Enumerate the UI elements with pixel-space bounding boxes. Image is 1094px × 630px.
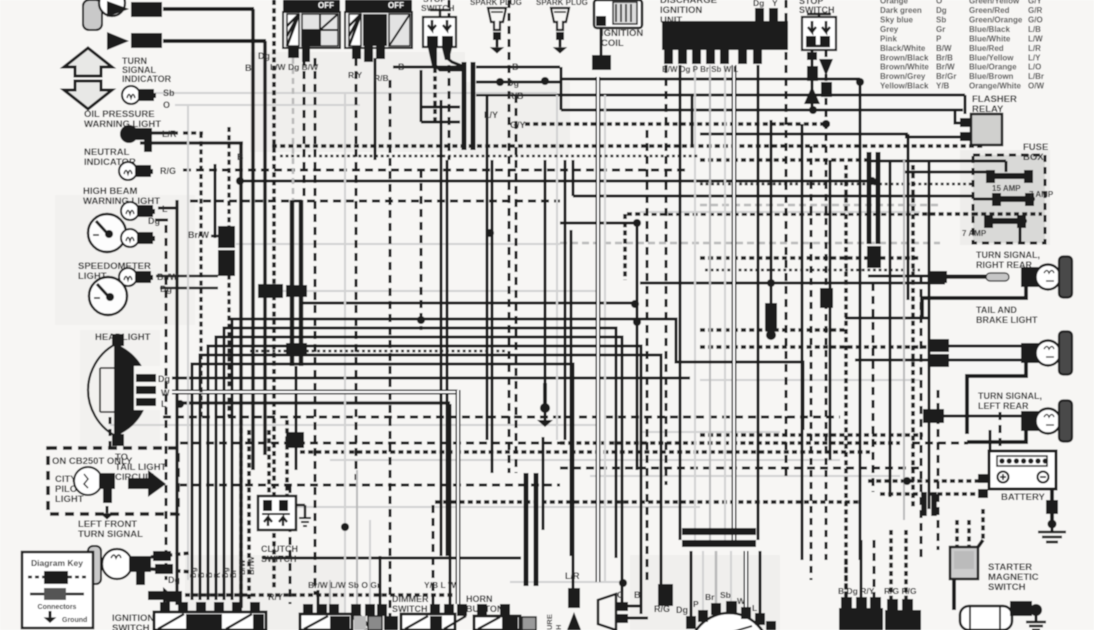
wire h63 bbox=[510, 581, 624, 583]
svg-text:Pink: Pink bbox=[880, 34, 897, 43]
wire v3 bbox=[239, 143, 243, 608]
svg-text:L: L bbox=[161, 399, 167, 409]
wire h14 bbox=[272, 144, 985, 148]
svg-text:G/R: G/R bbox=[1028, 6, 1042, 15]
ignition coil connector bbox=[592, 55, 611, 70]
wire h48 bbox=[163, 416, 840, 419]
alternator connector bars bbox=[682, 528, 756, 547]
wire h27 bbox=[705, 269, 920, 272]
wire v25 bbox=[515, 95, 518, 473]
svg-text:L/B: L/B bbox=[1028, 25, 1041, 34]
wire v37 bbox=[623, 214, 627, 280]
wire v17 bbox=[227, 127, 230, 417]
wire v66 bbox=[187, 105, 189, 580]
fuse box overlay wires bbox=[973, 160, 1006, 163]
spark plug 2 bbox=[551, 8, 569, 54]
svg-text:Br: Br bbox=[705, 592, 715, 602]
svg-text:Dg: Dg bbox=[148, 216, 160, 226]
wire v2 bbox=[272, 0, 276, 590]
staircase wire 1 bbox=[216, 337, 622, 602]
svg-text:HORN: HORN bbox=[466, 594, 493, 604]
wire h56 bbox=[590, 475, 900, 477]
svg-text:L/O: L/O bbox=[1028, 63, 1041, 72]
oil pressure switch label (cut) bbox=[545, 614, 563, 630]
wire h25 bbox=[627, 212, 1042, 216]
svg-text:Br/W: Br/W bbox=[157, 272, 179, 282]
svg-text:G/O: G/O bbox=[1028, 16, 1043, 25]
wire v26 bbox=[544, 160, 547, 383]
tail and brake light lamp bbox=[928, 332, 1072, 375]
wire v47 bbox=[679, 65, 682, 540]
wire v12 bbox=[448, 0, 451, 160]
wire v69 bbox=[317, 590, 320, 613]
wire h26 bbox=[560, 242, 940, 245]
speedometer bulb bbox=[119, 268, 153, 286]
headlight bbox=[88, 334, 160, 446]
junction J4 bbox=[856, 78, 864, 86]
dashed box CB250T bbox=[48, 448, 178, 514]
wire v7 bbox=[355, 58, 358, 480]
svg-text:P: P bbox=[936, 34, 942, 43]
svg-text:Blue/Black: Blue/Black bbox=[969, 25, 1010, 34]
svg-text:Dg: Dg bbox=[936, 6, 947, 15]
wire v68 bbox=[247, 430, 251, 600]
ignition pulse connector bbox=[567, 588, 581, 630]
wire v71 bbox=[344, 93, 346, 613]
wire v74 bbox=[379, 556, 382, 613]
rectifier connector block bbox=[885, 599, 921, 630]
turn signal indicator arrows bbox=[64, 48, 112, 109]
wire W white double-line vertical bbox=[596, 77, 601, 582]
svg-text:B Dg R/Y: B Dg R/Y bbox=[838, 586, 875, 596]
svg-text:Black/White: Black/White bbox=[880, 44, 926, 53]
wire v65 bbox=[175, 200, 178, 605]
svg-text:SPARK PLUG: SPARK PLUG bbox=[536, 0, 588, 7]
svg-text:Dg: Dg bbox=[160, 284, 172, 294]
wire h8 bbox=[175, 104, 360, 106]
wire into bars b bbox=[421, 121, 460, 124]
svg-text:Diagram Key: Diagram Key bbox=[31, 558, 83, 568]
wire v23 bbox=[491, 160, 494, 473]
left front turn signal lamp bbox=[88, 546, 151, 585]
junction J16 bbox=[633, 318, 641, 326]
svg-text:15 AMP: 15 AMP bbox=[992, 184, 1021, 193]
right front turn signal (cut at top) bbox=[83, 0, 162, 50]
wire v55 bbox=[844, 165, 848, 604]
svg-text:Blue/Red: Blue/Red bbox=[969, 44, 1004, 53]
svg-text:BOX: BOX bbox=[1023, 152, 1044, 163]
wire h2 bbox=[393, 66, 463, 69]
high beam warning light bulb bbox=[121, 202, 155, 220]
svg-text:O: O bbox=[163, 100, 170, 110]
svg-text:B/W: B/W bbox=[238, 559, 247, 575]
staircase wire 3 bbox=[200, 355, 661, 600]
svg-text:Orange/White: Orange/White bbox=[969, 82, 1022, 91]
svg-text:Dg: Dg bbox=[507, 78, 519, 88]
starter motor bbox=[960, 601, 1042, 630]
svg-text:7 AMP: 7 AMP bbox=[1029, 190, 1054, 199]
headlight switch (cut) bbox=[345, 0, 412, 62]
wire h20 bbox=[700, 183, 975, 186]
fuse box bbox=[973, 155, 1045, 243]
wire W white double-line headlight bbox=[172, 390, 458, 395]
wire v56 bbox=[859, 79, 862, 560]
wire v13 bbox=[289, 485, 292, 604]
wire h35 bbox=[868, 275, 990, 278]
svg-text:H: H bbox=[554, 625, 563, 630]
wire h43 bbox=[949, 345, 1015, 348]
wire h55 bbox=[560, 467, 920, 470]
svg-text:Sb: Sb bbox=[720, 590, 731, 600]
left front turn signal leads bbox=[151, 551, 192, 574]
wire v10 bbox=[420, 170, 423, 330]
wire h51 bbox=[700, 433, 923, 437]
svg-text:COIL: COIL bbox=[601, 38, 624, 49]
svg-text:Brown/Black: Brown/Black bbox=[880, 53, 929, 62]
wire v30 bbox=[433, 68, 437, 124]
junction J3 bbox=[236, 177, 244, 185]
svg-text:Blue/Yellow: Blue/Yellow bbox=[969, 53, 1014, 62]
wire h34 bbox=[156, 275, 218, 278]
wire v45 bbox=[646, 130, 649, 580]
fine dot run top bbox=[280, 155, 700, 158]
connector R/G bottom bbox=[658, 584, 673, 606]
svg-text:TURN SIGNAL,: TURN SIGNAL, bbox=[978, 391, 1042, 401]
junction J5 bbox=[417, 316, 425, 324]
wire v64 bbox=[165, 225, 168, 580]
svg-text:B/W: B/W bbox=[936, 44, 952, 53]
clutch switch bbox=[258, 420, 296, 530]
junction J13 bbox=[631, 300, 639, 308]
junction J14 bbox=[809, 106, 817, 114]
wire h38 bbox=[283, 290, 600, 292]
wire v36 bbox=[636, 223, 639, 470]
connector block below bars bbox=[286, 432, 304, 448]
horn bbox=[598, 594, 648, 630]
turn signal right rear lamp bbox=[929, 257, 1072, 298]
wire v54 bbox=[829, 160, 832, 460]
wire h52 bbox=[560, 441, 900, 445]
wire v62 bbox=[928, 160, 931, 509]
wire h13 bbox=[140, 141, 243, 144]
svg-text:Dg: Dg bbox=[753, 0, 764, 8]
flasher relay bbox=[960, 114, 1002, 145]
wire h17 bbox=[868, 160, 1008, 163]
wire h19 bbox=[240, 180, 880, 183]
wire v39 bbox=[907, 134, 910, 300]
starter magnetic switch bbox=[950, 509, 983, 610]
to tail light arrow bbox=[128, 470, 166, 497]
wire v0 bbox=[251, 9, 255, 470]
wire v59 bbox=[903, 160, 905, 520]
wire v67 bbox=[239, 420, 243, 600]
wire v79 bbox=[759, 551, 762, 614]
svg-text:LIGHT: LIGHT bbox=[55, 494, 84, 505]
wire h45 bbox=[172, 377, 690, 380]
svg-text:Blue/Orange: Blue/Orange bbox=[969, 63, 1017, 72]
svg-text:SWITCH: SWITCH bbox=[988, 582, 1026, 593]
wire v61 bbox=[920, 276, 923, 560]
wire v32 bbox=[564, 160, 567, 440]
wire into flasher relay bbox=[955, 110, 971, 123]
wire v50 bbox=[724, 65, 726, 540]
wire v5 bbox=[314, 58, 317, 595]
wire h40 bbox=[845, 317, 928, 320]
svg-text:Y/B L W: Y/B L W bbox=[424, 580, 457, 590]
wire h46 bbox=[700, 379, 920, 381]
wire v77 bbox=[715, 551, 718, 604]
wire v43 bbox=[1019, 225, 1022, 243]
dashed near battery top bbox=[912, 442, 968, 445]
turn signal indicator bulb bbox=[122, 86, 156, 104]
svg-text:Dg: Dg bbox=[158, 374, 170, 384]
svg-text:Yellow/Black: Yellow/Black bbox=[880, 82, 929, 91]
wire h9 bbox=[561, 109, 963, 112]
wire h11 bbox=[525, 122, 830, 126]
wire h18 bbox=[905, 171, 988, 174]
diagram key connector 1 bbox=[28, 571, 86, 584]
svg-text:Blue/White: Blue/White bbox=[969, 34, 1011, 43]
svg-text:BRAKE LIGHT: BRAKE LIGHT bbox=[976, 315, 1038, 325]
wire h39 bbox=[302, 302, 633, 305]
regulator connector block bbox=[839, 597, 883, 630]
svg-text:Grey: Grey bbox=[880, 25, 899, 34]
wire h22 bbox=[560, 222, 637, 225]
wire v75 bbox=[690, 551, 693, 618]
solid vertical x661 bbox=[660, 455, 663, 584]
wire h50 bbox=[640, 431, 780, 433]
junction J15 bbox=[822, 120, 830, 128]
svg-text:B: B bbox=[634, 590, 641, 600]
svg-text:L: L bbox=[162, 204, 168, 214]
wire v9 bbox=[389, 80, 392, 630]
svg-text:Y/B: Y/B bbox=[936, 82, 950, 91]
svg-text:Dg: Dg bbox=[258, 51, 270, 61]
svg-text:OFF: OFF bbox=[388, 1, 404, 10]
svg-text:G: G bbox=[617, 590, 624, 600]
wire W white double-line alternator bbox=[744, 551, 749, 608]
connector on wire x771 bbox=[765, 303, 777, 340]
svg-text:SWITCH: SWITCH bbox=[421, 3, 455, 13]
wire v76 bbox=[702, 551, 704, 610]
spark plug 1 bbox=[488, 8, 506, 54]
wire h47 bbox=[176, 401, 450, 404]
bottom right leads bbox=[846, 530, 906, 599]
tail light return wire bbox=[967, 363, 1026, 434]
instrument connector block A bbox=[218, 226, 235, 276]
svg-text:Green/Yellow: Green/Yellow bbox=[969, 0, 1020, 6]
wire h36 bbox=[640, 282, 945, 285]
svg-text:SPARK PLUG: SPARK PLUG bbox=[470, 0, 522, 7]
wire v33 bbox=[570, 230, 573, 556]
wire h49 bbox=[110, 424, 600, 426]
wire h33 bbox=[700, 256, 920, 260]
tachometer gauge bbox=[88, 214, 126, 252]
diagram key ground symbol bbox=[44, 611, 57, 623]
svg-text:DIMMER: DIMMER bbox=[392, 594, 429, 604]
svg-text:LEFT REAR: LEFT REAR bbox=[978, 401, 1029, 411]
svg-text:Dark green: Dark green bbox=[880, 6, 922, 15]
svg-text:Dg: Dg bbox=[676, 605, 688, 615]
turn signal right rear return wire bbox=[922, 287, 1026, 318]
discharge ignition unit bbox=[662, 0, 788, 64]
battery earth lead bbox=[1046, 489, 1058, 529]
wire v51 bbox=[757, 65, 760, 540]
staircase wire jog bbox=[232, 319, 803, 600]
wire h0 bbox=[163, 7, 254, 11]
svg-text:O/W: O/W bbox=[1028, 82, 1044, 91]
wire v78 bbox=[730, 551, 732, 602]
wire v44 bbox=[810, 146, 813, 580]
tachometer bulb bbox=[121, 229, 155, 247]
ignition switch box bbox=[154, 602, 266, 630]
wire v80 bbox=[989, 430, 992, 451]
svg-text:BATTERY: BATTERY bbox=[1001, 492, 1045, 503]
svg-text:INDICATOR: INDICATOR bbox=[122, 74, 172, 84]
starter motor ground bbox=[1026, 622, 1046, 630]
svg-text:B: B bbox=[237, 152, 244, 162]
wire v14 bbox=[542, 437, 545, 530]
svg-text:Sb: Sb bbox=[936, 16, 946, 25]
wire v48 bbox=[694, 65, 696, 540]
svg-text:B/W Dg P Br Sb W L: B/W Dg P Br Sb W L bbox=[662, 65, 738, 74]
wire colour legend table bbox=[880, 0, 1044, 91]
wire h24 bbox=[700, 204, 940, 207]
wire W white double-line headlight drop bbox=[456, 390, 461, 604]
wire v19 bbox=[440, 100, 443, 556]
wire v15 bbox=[214, 164, 217, 238]
svg-text:G/Y: G/Y bbox=[510, 120, 526, 130]
wire h15 bbox=[700, 158, 868, 162]
wire h21 bbox=[573, 195, 989, 198]
instrument harness connector bars bbox=[290, 200, 295, 366]
junction J10 bbox=[541, 77, 549, 85]
stop switch bbox=[802, 14, 836, 50]
wire v16 bbox=[109, 417, 112, 448]
wire W white double-line ignition unit bbox=[732, 65, 737, 540]
staircase wire 4 bbox=[192, 364, 573, 600]
wire h31 bbox=[211, 235, 222, 238]
wire v52 bbox=[770, 120, 773, 303]
svg-text:L/R: L/R bbox=[565, 571, 580, 581]
wire h53 bbox=[300, 450, 870, 454]
svg-text:R/Y: R/Y bbox=[348, 70, 363, 80]
wire v58 bbox=[889, 160, 892, 497]
wire v1 bbox=[263, 41, 267, 455]
wire v60 bbox=[911, 165, 915, 509]
wire v18 bbox=[295, 366, 298, 470]
svg-text:Br/Gr: Br/Gr bbox=[936, 72, 956, 81]
svg-text:L/W: L/W bbox=[1028, 34, 1043, 43]
wire h54 bbox=[330, 459, 840, 461]
wire h42 bbox=[700, 345, 928, 349]
wire h10 bbox=[700, 133, 908, 136]
fine dot run mid bbox=[250, 350, 505, 353]
svg-text:B: B bbox=[245, 63, 252, 73]
svg-text:L/R: L/R bbox=[162, 129, 177, 139]
junction J2 bbox=[767, 279, 775, 287]
svg-text:R/G: R/G bbox=[160, 166, 176, 176]
svg-text:Br: Br bbox=[229, 569, 238, 578]
wire v46 bbox=[665, 65, 668, 485]
wire v38 bbox=[572, 160, 575, 196]
svg-text:TURN SIGNAL: TURN SIGNAL bbox=[78, 529, 143, 540]
svg-text:TAIL AND: TAIL AND bbox=[976, 305, 1017, 315]
diagram key connector 2 bbox=[30, 588, 84, 600]
ignition coil bbox=[594, 0, 642, 28]
wire v21 bbox=[449, 404, 452, 604]
svg-text:O: O bbox=[936, 0, 942, 6]
instrument connector block B bbox=[258, 284, 307, 356]
wire h4 bbox=[560, 78, 860, 81]
svg-text:OFF: OFF bbox=[318, 1, 334, 10]
wire v6 bbox=[292, 58, 295, 200]
wire h62 bbox=[295, 506, 700, 508]
junction J7 bbox=[341, 523, 349, 531]
svg-text:L/Br: L/Br bbox=[1028, 72, 1044, 81]
wire h59 bbox=[435, 500, 860, 504]
svg-text:L/Y: L/Y bbox=[484, 110, 498, 120]
wire h44 bbox=[855, 359, 949, 362]
clutch switch ground bbox=[296, 505, 311, 526]
wire h28 bbox=[158, 207, 177, 210]
svg-text:Br/W L/W Sb O Gr: Br/W L/W Sb O Gr bbox=[308, 580, 381, 590]
svg-text:7 AMP: 7 AMP bbox=[962, 229, 987, 238]
wire h29 bbox=[640, 211, 920, 213]
svg-text:R/Y: R/Y bbox=[268, 592, 283, 602]
wire h37 bbox=[160, 287, 218, 290]
battery bbox=[989, 451, 1056, 489]
wire v53 bbox=[785, 0, 788, 480]
wire h32 bbox=[236, 243, 560, 245]
svg-text:SWITCH: SWITCH bbox=[392, 604, 428, 614]
city pilot light bulb bbox=[74, 467, 115, 503]
wire h64 bbox=[185, 593, 460, 597]
svg-text:Dg: Dg bbox=[168, 575, 180, 585]
turn signal switch (cut) bbox=[283, 0, 340, 62]
wire into flasher relay 2 bbox=[905, 136, 971, 139]
wire L/R hatched vertical bbox=[199, 133, 202, 417]
svg-text:R/B: R/B bbox=[508, 91, 524, 101]
rear brake light switch bbox=[820, 288, 833, 308]
svg-text:Gr: Gr bbox=[936, 25, 945, 34]
wire v57 bbox=[872, 283, 875, 492]
rear bars lower block bbox=[867, 246, 881, 268]
wire v42 bbox=[1007, 161, 1010, 176]
svg-text:URE: URE bbox=[545, 614, 554, 630]
svg-text:Sb: Sb bbox=[163, 88, 175, 98]
svg-text:Green/Red: Green/Red bbox=[969, 6, 1010, 15]
svg-text:Br/W: Br/W bbox=[188, 230, 210, 240]
battery terminals left bbox=[978, 474, 988, 498]
wire h5 bbox=[476, 81, 560, 84]
wire h41 bbox=[700, 328, 845, 332]
wire h58 bbox=[868, 479, 979, 483]
wire v27 bbox=[556, 95, 558, 440]
svg-text:Brown/White: Brown/White bbox=[880, 63, 929, 72]
rear harness connector bars bbox=[867, 152, 872, 244]
turn signal left rear lamp bbox=[923, 401, 1072, 442]
svg-text:B: B bbox=[512, 62, 519, 72]
junction J1 bbox=[633, 219, 641, 227]
svg-text:R/G R/G: R/G R/G bbox=[884, 586, 917, 596]
wire v34 bbox=[604, 95, 606, 582]
dimmer switch box bbox=[401, 604, 467, 630]
wire v8 bbox=[374, 58, 377, 160]
staircase wire 2 bbox=[208, 346, 641, 614]
left handlebar switch boxes bbox=[300, 604, 398, 630]
svg-text:L/R: L/R bbox=[1028, 44, 1041, 53]
